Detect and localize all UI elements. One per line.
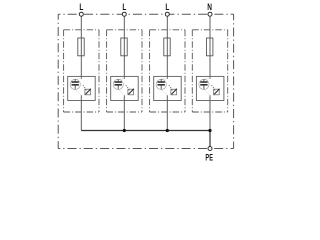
svg-text:PE: PE	[205, 152, 213, 163]
svg-text:L: L	[79, 2, 83, 13]
svg-text:N: N	[207, 2, 212, 13]
svg-text:L: L	[122, 2, 126, 13]
svg-text:L: L	[165, 2, 169, 13]
